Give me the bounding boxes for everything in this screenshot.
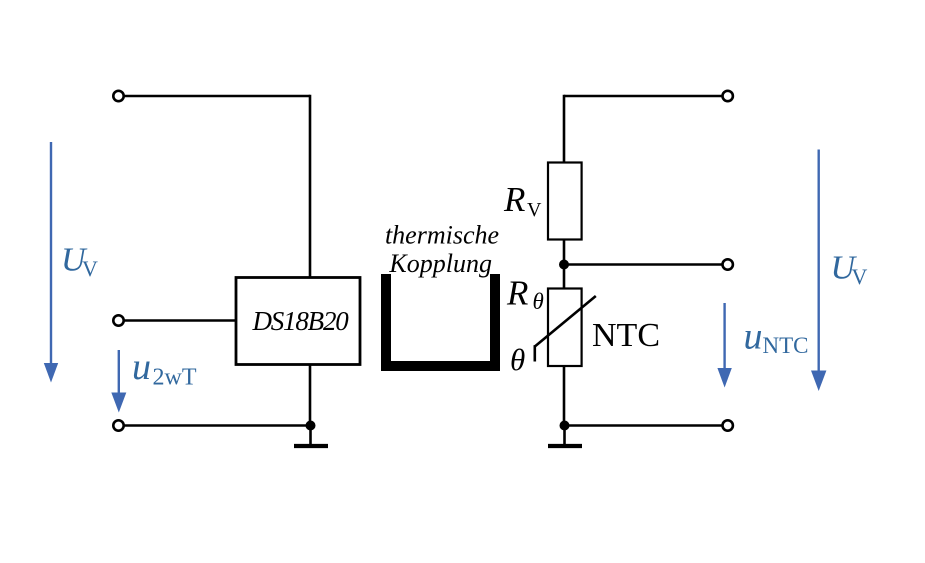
arrow UV right [818,150,820,373]
wire RV to node [563,240,566,289]
wire top-left horizontal [124,95,310,98]
thermistor diagonal [535,296,596,347]
svg-text:u: u [132,346,151,388]
wire left vertical to DS18B20 [309,95,312,278]
wire right vertical to RV [563,95,566,163]
wire top-right horizontal [564,95,722,98]
terminal top-right [723,91,733,101]
svg-text:Kopplung: Kopplung [388,249,492,278]
wire mid-right horizontal [564,263,722,266]
svg-text:NTC: NTC [592,317,660,354]
terminal mid-left [113,315,123,325]
ground right [563,426,566,447]
svg-text:R: R [503,180,525,219]
wire mid-left horizontal [124,319,236,322]
terminal top-left [113,91,123,101]
svg-text:u: u [744,315,763,357]
svg-text:NTC: NTC [763,333,809,358]
thermistor R_theta NTC [548,289,582,367]
thermal coupling bracket [381,274,500,371]
wire bottom-right horizontal [564,424,722,427]
junction dot mid-right [559,260,569,270]
arrow UV left [50,142,52,364]
resistor RV [548,163,582,240]
svg-text:V: V [82,256,98,281]
ground left [309,426,312,447]
svg-text:θ: θ [533,289,544,314]
svg-text:2wT: 2wT [153,365,197,391]
terminal bottom-right [723,420,733,430]
terminal mid-right [723,259,733,269]
DS18B20 box U1 [236,278,360,365]
thermistor diagonal tick [533,345,536,361]
svg-text:thermische: thermische [385,221,499,250]
arrow u2wT [118,350,120,394]
arrow uNTC [723,303,725,370]
svg-text:V: V [852,264,868,289]
svg-text:V: V [527,199,542,221]
wire DS18B20 bottom vertical [309,365,312,426]
svg-text:DS18B20: DS18B20 [251,306,349,336]
junction dot bottom-right [560,421,570,431]
junction dot left [306,421,316,431]
wire bottom-left horizontal [124,424,311,427]
svg-text:R: R [506,274,528,313]
svg-text:θ: θ [510,342,525,377]
wire NTC to bottom node [563,366,566,426]
terminal bottom-left [113,420,123,430]
